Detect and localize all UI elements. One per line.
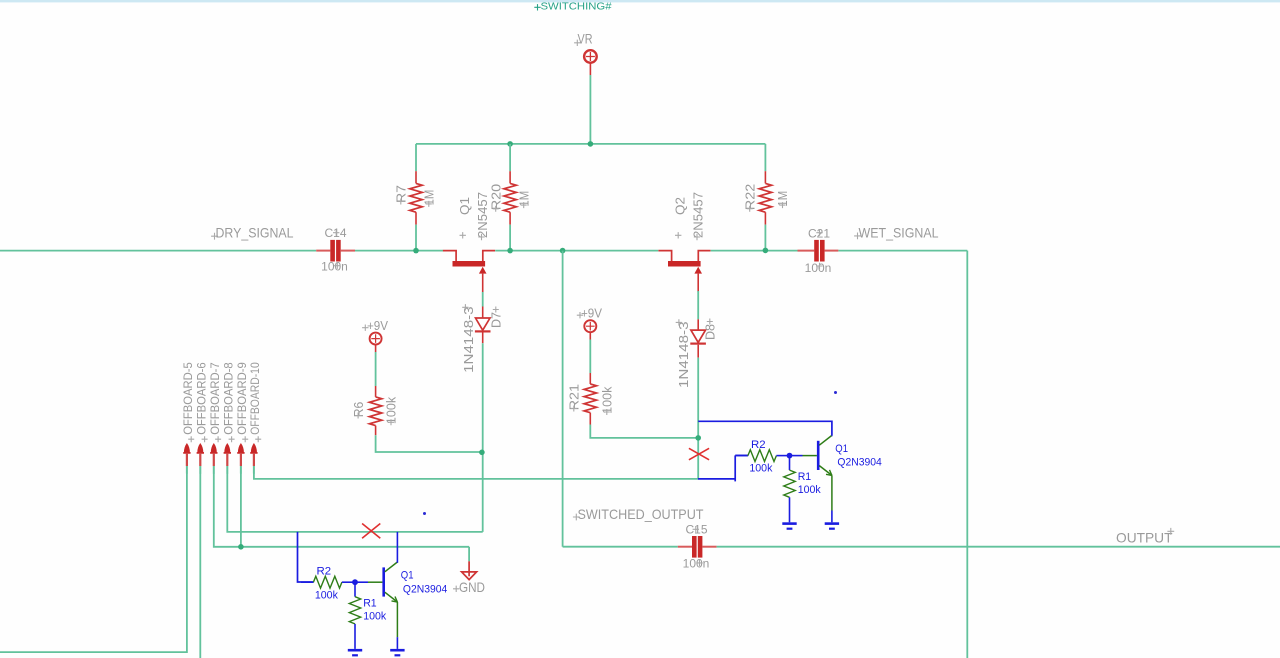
module origin dot (right) [834, 391, 837, 394]
svg-text:OFFBOARD-7: OFFBOARD-7 [208, 362, 222, 435]
top window strip [0, 0, 1280, 2]
wire base (right) [790, 455, 803, 457]
svg-text:R2: R2 [317, 566, 332, 578]
ground bar emitter (left) [390, 649, 404, 652]
svg-text:Q2N3904: Q2N3904 [837, 457, 881, 469]
svg-text:WET_SIGNAL: WET_SIGNAL [859, 225, 939, 241]
supply symbol +9V (right) [584, 320, 596, 332]
wire OUTPUT [717, 546, 1280, 548]
wire DRY_SIGNAL left segment [0, 250, 316, 252]
svg-text:SWITCHING#: SWITCHING# [541, 0, 612, 12]
wire OFFBOARD-7 [214, 473, 469, 547]
svg-text:GND: GND [459, 579, 485, 595]
wire +9V to R21 [589, 340, 591, 374]
junction rail / R20 bottom [507, 248, 513, 254]
wire SWITCHED_OUTPUT to C15 [563, 546, 678, 548]
junction D7 / R6 [479, 450, 485, 456]
transistor Q1 Q2N3904 (left module) [382, 567, 385, 596]
resistor R22 1M [764, 144, 766, 171]
supply symbol VR [584, 50, 597, 63]
ground bar R1 (left) [348, 649, 362, 652]
net label SWITCHING# [534, 4, 540, 10]
svg-text:2N5457: 2N5457 [692, 192, 706, 238]
junction OFFBOARD-9 / GND net [238, 544, 244, 550]
wire D7 down [482, 343, 484, 532]
svg-text:R2: R2 [751, 439, 766, 451]
junction top rail / R20 [507, 141, 513, 147]
wire Q2 to C21 [711, 250, 798, 252]
svg-text:OFFBOARD-6: OFFBOARD-6 [194, 362, 208, 435]
net label WET_SIGNAL [854, 233, 861, 240]
ground bar R1 (right) [782, 522, 796, 525]
resistor R20 1M [509, 144, 511, 171]
resistor R21 100k [589, 373, 591, 384]
wire OFFBOARD-10 [254, 473, 698, 479]
wire module entry (right) [698, 478, 735, 480]
junction rail / R7 bottom [413, 248, 419, 254]
svg-text:100k: 100k [749, 463, 772, 475]
resistor R2 100k (right module) [736, 455, 748, 457]
wire Q1 gate to D7 [482, 292, 484, 307]
svg-text:100k: 100k [798, 484, 821, 496]
net label DRY_SIGNAL [211, 233, 218, 240]
wire OFFBOARD-9 [240, 473, 242, 547]
svg-text:Q2N3904: Q2N3904 [403, 583, 447, 595]
wire R21 to D8 net [590, 425, 698, 438]
svg-text:DRY_SIGNAL: DRY_SIGNAL [216, 225, 294, 241]
label VR [574, 40, 580, 46]
resistor R6 100k [375, 386, 377, 397]
wire OFFBOARD-5 [0, 473, 187, 652]
transistor Q1 Q1 2N5457 JFET [453, 261, 486, 267]
wire to GND [468, 547, 470, 562]
wire C14 to Q1 [355, 250, 443, 252]
wire Q1 to Q2 [495, 250, 658, 252]
svg-text:Q1: Q1 [458, 197, 472, 215]
svg-text:Q1: Q1 [835, 443, 848, 455]
wire OFFBOARD-8 [227, 473, 482, 532]
ground GND (supply symbol) [468, 561, 470, 576]
wire Q2 gate to D8 [697, 291, 699, 319]
wire module entry (left) [298, 532, 314, 582]
svg-text:Q1: Q1 [401, 570, 414, 582]
svg-text:100k: 100k [315, 589, 338, 601]
svg-text:100n: 100n [321, 259, 348, 273]
diode D8 1N4148-3 [697, 319, 699, 330]
pin OFFBOARD-5 [184, 443, 190, 453]
junction base node (left) [352, 579, 358, 585]
resistor R2 100k (left module) [301, 581, 313, 583]
wire D8 down [697, 358, 699, 479]
net label SWITCHED_OUTPUT [573, 514, 580, 521]
pin OFFBOARD-8 [224, 443, 230, 453]
svg-text:+9V: +9V [367, 318, 388, 333]
wire VR to rail [589, 75, 591, 144]
svg-text:OFFBOARD-8: OFFBOARD-8 [221, 362, 235, 435]
junction top rail / VR [588, 141, 594, 147]
svg-text:VR: VR [578, 32, 593, 47]
junction rail / R22 bottom [763, 248, 769, 254]
svg-text:+9V: +9V [581, 305, 602, 320]
wire collector to D8 net (right) [698, 421, 832, 435]
svg-text:2N5457: 2N5457 [476, 192, 490, 238]
wire WET_SIGNAL [838, 250, 967, 252]
svg-text:R1: R1 [363, 598, 377, 610]
diode D7 1N4148-3 [482, 307, 484, 319]
capacitor C14 [316, 250, 330, 252]
ground bar emitter (right) [825, 522, 839, 525]
svg-text:100n: 100n [805, 261, 832, 275]
label +9V (left) [362, 325, 368, 331]
svg-text:Q2: Q2 [673, 197, 687, 215]
capacitor C15 [678, 546, 692, 548]
svg-text:1N4148-3: 1N4148-3 [462, 306, 476, 373]
pin OFFBOARD-7 [211, 443, 217, 453]
pin OFFBOARD-9 [238, 443, 244, 453]
no-connect X mark (left) [362, 524, 380, 539]
transistor Q1 Q2N3904 (right module) [817, 441, 820, 470]
wire +9V to R6 [375, 352, 377, 386]
transistor Q2 Q2 2N5457 JFET [668, 261, 701, 267]
svg-text:R1: R1 [798, 471, 812, 483]
svg-text:D7: D7 [490, 312, 504, 328]
supply symbol +9V (left) [370, 333, 382, 345]
svg-text:OUTPUT: OUTPUT [1116, 530, 1173, 546]
label GND [453, 586, 459, 592]
junction D8 / R21 [695, 435, 701, 441]
wire WET_SIGNAL down right side [966, 251, 968, 658]
junction base node (right) [787, 453, 793, 459]
capacitor C21 [798, 250, 815, 252]
svg-text:OFFBOARD-10: OFFBOARD-10 [248, 362, 262, 435]
svg-text:SWITCHED_OUTPUT: SWITCHED_OUTPUT [578, 506, 704, 522]
resistor R7 1M [415, 144, 417, 171]
svg-text:OFFBOARD-9: OFFBOARD-9 [235, 362, 249, 435]
label +9V (right) [577, 312, 583, 318]
no-connect X mark (right) [689, 448, 709, 460]
wire R6 to D7 net [376, 435, 482, 452]
svg-text:1N4148-3: 1N4148-3 [677, 321, 691, 388]
pin OFFBOARD-6 [197, 443, 203, 453]
svg-text:OFFBOARD-5: OFFBOARD-5 [181, 362, 195, 435]
svg-text:100n: 100n [683, 556, 710, 570]
svg-text:D8: D8 [704, 324, 718, 340]
pin OFFBOARD-10 [251, 443, 257, 453]
resistor R1 100k (left module) [354, 582, 356, 597]
wire rail down to SWITCHED_OUTPUT [562, 251, 564, 547]
wire base (left) [355, 581, 368, 583]
resistor R1 100k (right module) [789, 456, 791, 471]
junction rail / switched feed [560, 248, 566, 254]
svg-text:100k: 100k [363, 610, 386, 622]
wire top rail [416, 143, 765, 145]
module origin dot (left) [423, 512, 426, 515]
wire OFFBOARD-6 [199, 473, 201, 658]
